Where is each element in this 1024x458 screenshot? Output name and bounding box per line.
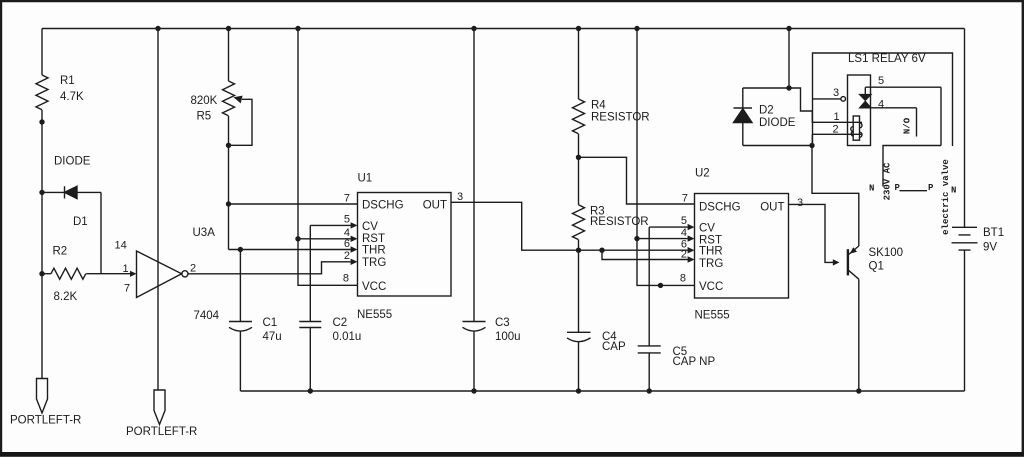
junction R5 wiper node — [226, 143, 231, 148]
battery BT1 plates — [952, 227, 978, 250]
svg-text:DSCHG: DSCHG — [362, 200, 404, 212]
resistor R1 — [36, 75, 48, 110]
svg-text:8.2K: 8.2K — [54, 291, 78, 303]
arrowheads U1 input pins — [351, 222, 358, 228]
junction R4 bottom node — [576, 155, 581, 160]
arrowheads U2 input pins — [688, 224, 695, 230]
wire relay pin4 N/O — [860, 108, 917, 137]
svg-text:electric valve: electric valve — [941, 159, 951, 235]
wire contact circuit to P — [883, 146, 941, 187]
junction R1 bottom node — [39, 119, 44, 124]
svg-text:Q1: Q1 — [869, 261, 884, 273]
wire C1 branch — [239, 250, 241, 322]
junction top rail / D2 relay branch — [786, 26, 791, 31]
wire top supply rail — [42, 28, 965, 30]
wire D2 node down to Q1 emitter — [812, 146, 859, 247]
wire C3 branch from rail — [473, 29, 475, 322]
svg-text:RESISTOR: RESISTOR — [591, 112, 650, 124]
port PORTLEFT-R 1 — [37, 379, 48, 414]
relay contact triangle NO — [860, 101, 871, 107]
capacitor C4 — [567, 332, 591, 391]
wire U1 pin6 THR — [229, 249, 352, 251]
wire left vertical R1 branch — [41, 29, 43, 379]
wire R5 wiper loop — [229, 99, 253, 145]
svg-text:230V AC: 230V AC — [883, 162, 893, 200]
junction top rail / R4 — [576, 26, 581, 31]
svg-text:820K: 820K — [191, 95, 218, 107]
svg-text:THR: THR — [699, 246, 723, 258]
svg-text:D1: D1 — [73, 216, 88, 228]
arrowhead 7404 input pin1 — [130, 271, 137, 277]
junction top rail / 7404 pin14 — [155, 26, 160, 31]
svg-text:4: 4 — [878, 99, 884, 111]
svg-text:R1: R1 — [60, 75, 75, 87]
svg-text:NE555: NE555 — [357, 309, 392, 321]
svg-text:VCC: VCC — [362, 281, 386, 293]
svg-text:U1: U1 — [358, 173, 373, 185]
svg-text:0.01u: 0.01u — [333, 331, 362, 343]
wire U2 pin4 RST supply from rail — [637, 29, 688, 239]
junction U2 VCC wire node — [658, 283, 663, 288]
capacitor C2 — [299, 322, 321, 392]
svg-text:CAP: CAP — [602, 341, 626, 353]
svg-text:THR: THR — [362, 245, 386, 257]
wire relay pin3 stub — [813, 98, 841, 100]
svg-text:CV: CV — [699, 223, 715, 235]
svg-text:OUT: OUT — [423, 200, 447, 212]
wire U2 pin3 OUT to Q1 base — [789, 204, 834, 262]
wire rail drop to D2 loop — [788, 29, 790, 89]
svg-text:TRG: TRG — [699, 258, 723, 270]
capacitor C5 — [638, 346, 661, 391]
svg-text:1: 1 — [834, 111, 840, 123]
svg-text:7: 7 — [124, 283, 130, 295]
diode D1 — [42, 186, 101, 198]
IC U2 box — [695, 194, 789, 299]
junction U1 RST/VCC node — [295, 236, 300, 241]
svg-text:7: 7 — [682, 193, 688, 205]
svg-text:VCC: VCC — [699, 281, 723, 293]
junction U2 RST/VCC node — [634, 236, 639, 241]
resistor R4 — [573, 99, 585, 134]
wire U1 pin7 DSCHG — [229, 203, 358, 205]
svg-text:DSCHG: DSCHG — [699, 202, 741, 214]
svg-text:P: P — [895, 183, 901, 193]
junction top rail / U2 RST supply — [634, 26, 639, 31]
svg-text:PORTLEFT-R: PORTLEFT-R — [126, 426, 197, 438]
diode D2 loop — [734, 88, 813, 146]
junction top rail / U1 RST supply — [295, 26, 300, 31]
inverter U3A — [137, 251, 182, 298]
resistor R3 — [573, 205, 585, 240]
transistor Q1 — [847, 249, 849, 275]
svg-text:2: 2 — [344, 250, 350, 262]
svg-text:RESISTOR: RESISTOR — [590, 216, 649, 228]
junction R2 left node — [39, 271, 44, 276]
wire U2 pin7 DSCHG from R4 — [579, 157, 695, 204]
svg-text:2: 2 — [681, 249, 687, 261]
svg-text:DIODE: DIODE — [759, 117, 796, 129]
svg-text:PORTLEFT-R: PORTLEFT-R — [10, 415, 81, 427]
relay LS1 inner box — [848, 75, 871, 146]
wire relay pin2 — [812, 134, 862, 145]
relay LS1 outer box — [813, 53, 953, 146]
wire U1 pin4 RST supply from rail — [298, 29, 351, 239]
svg-text:3: 3 — [457, 191, 463, 203]
svg-text:2: 2 — [833, 124, 839, 136]
wire U2 pin5 CV — [649, 227, 688, 346]
junction D2 anode / relay pin2 node — [809, 143, 814, 148]
svg-text:C2: C2 — [333, 317, 348, 329]
svg-text:R4: R4 — [591, 100, 606, 112]
svg-text:3: 3 — [797, 197, 803, 209]
svg-text:P: P — [928, 183, 934, 193]
capacitor C3 — [463, 322, 486, 392]
wire battery branch — [964, 29, 966, 392]
svg-text:CV: CV — [362, 221, 378, 233]
potentiometer R5 — [223, 81, 235, 116]
svg-text:C3: C3 — [495, 317, 510, 329]
wire U2 pin2 TRG step — [602, 250, 688, 259]
wire bottom ground rail — [240, 390, 964, 392]
junction D2 cathode / rail drop — [786, 85, 791, 90]
svg-text:6: 6 — [344, 238, 350, 250]
wire U1 pin3 OUT to U2 THR — [451, 202, 688, 250]
junction bottom rail / C2 — [308, 388, 313, 393]
svg-text:C1: C1 — [263, 317, 278, 329]
wire 7404 power pin 14/7 vertical — [157, 29, 159, 391]
svg-text:TRG: TRG — [362, 257, 386, 269]
IC U1 box — [358, 193, 452, 297]
relay pin3 bubble — [841, 97, 846, 102]
port PORTLEFT-R 2 — [154, 390, 165, 425]
svg-text:7: 7 — [344, 193, 350, 205]
relay contact triangle NC — [860, 95, 871, 101]
resistor R2 — [42, 268, 131, 279]
svg-text:4.7K: 4.7K — [60, 91, 84, 103]
arrowhead Q1 base — [833, 259, 840, 265]
junction bottom rail / Q1 collector — [856, 388, 861, 393]
svg-text:D2: D2 — [759, 105, 774, 117]
junction top rail / R5 — [226, 26, 231, 31]
arrowhead Q1 emitter — [850, 247, 857, 254]
svg-text:N/O: N/O — [903, 117, 913, 134]
svg-text:SK100: SK100 — [869, 247, 904, 259]
junction R3 bottom / U1 OUT node — [576, 248, 581, 253]
junction U1 THR / C1 node — [238, 247, 243, 252]
junction bottom rail / C5 — [647, 388, 652, 393]
junction bottom rail / C3 — [471, 388, 476, 393]
svg-text:2: 2 — [190, 263, 196, 275]
svg-text:8: 8 — [680, 273, 686, 285]
svg-text:OUT: OUT — [760, 202, 784, 214]
wire U1 pin8 VCC link — [298, 239, 358, 285]
junction top rail / C3 — [471, 26, 476, 31]
svg-text:N: N — [951, 186, 956, 196]
svg-text:3: 3 — [833, 87, 839, 99]
wire 7404 output to U1 pin2 TRG — [188, 262, 351, 274]
svg-text:5: 5 — [344, 214, 350, 226]
capacitor C1 — [229, 322, 252, 392]
svg-text:5: 5 — [681, 215, 687, 227]
svg-text:8: 8 — [343, 273, 349, 285]
wire R5 branch vertical — [228, 29, 230, 250]
svg-text:BT1: BT1 — [983, 227, 1004, 239]
svg-text:U2: U2 — [695, 168, 710, 180]
junction bottom rail / C4 — [576, 388, 581, 393]
wire relay pin5 contact — [865, 87, 941, 145]
junction U1 DSCHG node — [226, 201, 231, 206]
wire D1 branch down to R2 node — [100, 192, 102, 273]
svg-text:N: N — [869, 184, 874, 194]
svg-text:14: 14 — [115, 240, 127, 252]
svg-text:DIODE: DIODE — [54, 156, 91, 168]
svg-text:5: 5 — [878, 75, 884, 87]
svg-text:R5: R5 — [197, 111, 212, 123]
svg-text:47u: 47u — [263, 331, 282, 343]
svg-text:NE555: NE555 — [695, 310, 730, 322]
arrowhead R5 wiper — [234, 96, 243, 104]
wire U2 pin8 VCC link — [637, 239, 695, 286]
svg-text:100u: 100u — [495, 331, 521, 343]
wire R4 branch vertical — [578, 29, 580, 333]
svg-text:LS1 RELAY 6V: LS1 RELAY 6V — [848, 53, 926, 65]
junction U2 THR/TRG node — [599, 248, 604, 253]
junction D1 anode node — [39, 190, 44, 195]
svg-text:CAP NP: CAP NP — [673, 356, 716, 368]
svg-text:R2: R2 — [53, 246, 68, 258]
svg-text:7404: 7404 — [194, 310, 220, 322]
wire U1 pin5 CV — [310, 225, 351, 321]
svg-text:9V: 9V — [983, 242, 997, 254]
svg-text:U3A: U3A — [193, 227, 216, 239]
svg-text:RST: RST — [362, 233, 385, 245]
svg-text:4: 4 — [681, 227, 687, 239]
relay coil — [853, 116, 859, 140]
wire P link — [900, 190, 928, 192]
svg-text:1: 1 — [123, 263, 129, 275]
wire staircase rail to relay pin1 — [789, 88, 862, 122]
